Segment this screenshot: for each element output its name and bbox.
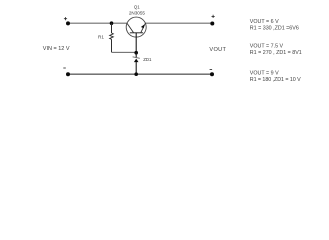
wire bottom rail <box>68 73 212 75</box>
zener diode ZD1 <box>133 53 140 74</box>
collector slant (left) <box>127 23 134 33</box>
plus sign at VIN+ <box>64 17 67 20</box>
svg-text:R1 = 330 ,ZD1 =6V6: R1 = 330 ,ZD1 =6V6 <box>250 26 299 32</box>
wire from R1 bottom to base node <box>112 51 137 53</box>
svg-text:R1: R1 <box>98 35 104 40</box>
junction node zener/bottom rail <box>134 72 138 76</box>
node VIN- input terminal <box>66 72 70 76</box>
svg-text:VOUT = 9 V: VOUT = 9 V <box>250 71 279 77</box>
plus sign at VOUT+ <box>212 15 215 18</box>
diode triangle <box>134 59 139 63</box>
node VIN+ input terminal <box>66 21 70 25</box>
junction node base/zener <box>134 51 138 55</box>
svg-text:Q1: Q1 <box>134 5 140 10</box>
base lead down <box>135 33 137 53</box>
svg-text:R1 = 180 ,ZD1 = 10 V: R1 = 180 ,ZD1 = 10 V <box>250 77 301 83</box>
resistor R1 <box>110 23 114 52</box>
emitter slant (right) with arrow <box>141 23 146 33</box>
base bar <box>130 32 143 34</box>
svg-text:R1 = 270 , ZD1 = 8V1: R1 = 270 , ZD1 = 8V1 <box>250 50 302 56</box>
svg-text:VIN = 12 V: VIN = 12 V <box>43 46 70 52</box>
wire top rail left segment <box>68 22 127 24</box>
minus sign at VIN- <box>63 67 66 69</box>
svg-text:2N3055: 2N3055 <box>129 11 146 16</box>
node VOUT- output terminal <box>210 72 214 76</box>
svg-text:VOUT: VOUT <box>209 47 226 53</box>
zener cathode bar <box>133 57 140 59</box>
minus sign at VOUT- <box>210 68 213 70</box>
transistor Q1 <box>126 17 146 52</box>
junction node at R1 top on rail <box>110 21 114 25</box>
svg-text:VOUT = 7.5 V: VOUT = 7.5 V <box>250 43 284 49</box>
node VOUT+ output terminal <box>210 22 214 26</box>
svg-text:VOUT = 6 V: VOUT = 6 V <box>250 19 279 25</box>
wire top rail right segment <box>145 22 212 24</box>
svg-text:ZD1: ZD1 <box>143 57 152 62</box>
